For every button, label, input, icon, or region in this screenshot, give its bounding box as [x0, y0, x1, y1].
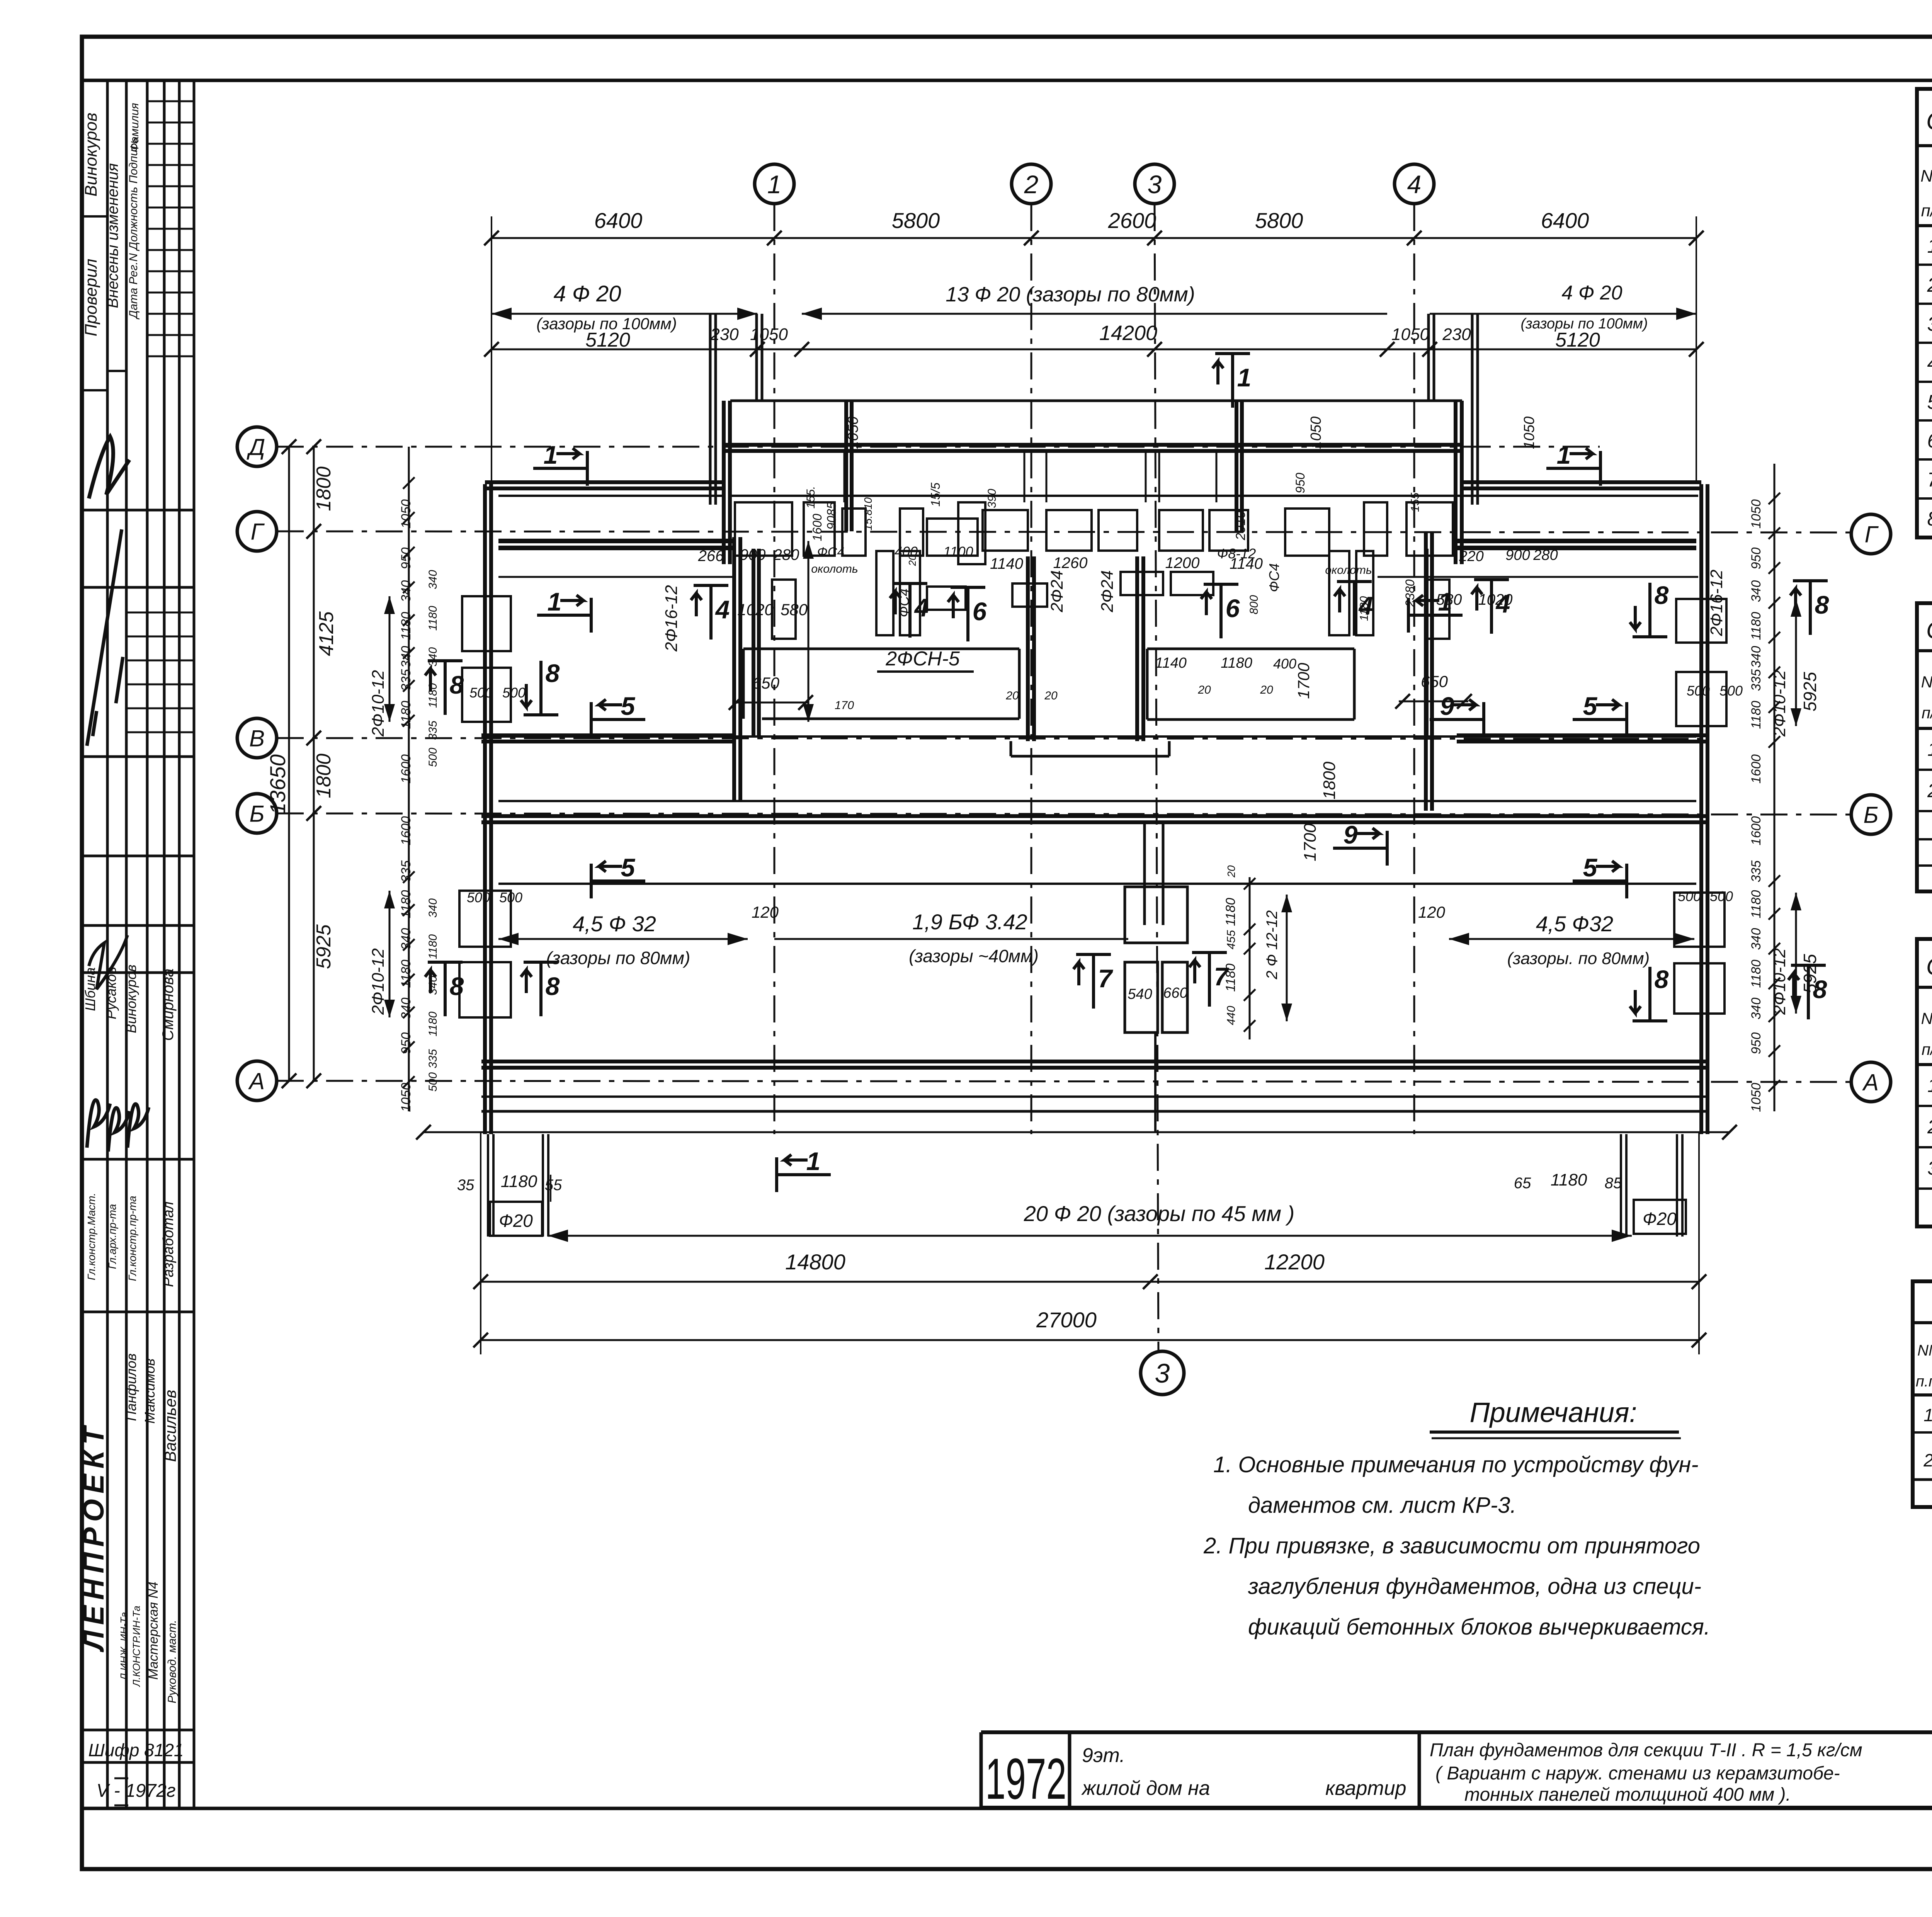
axis line A [277, 1081, 1851, 1082]
svg-text:35: 35 [457, 1177, 474, 1194]
svg-text:9085: 9085 [825, 502, 838, 529]
svg-text:4: 4 [1927, 352, 1932, 374]
svg-text:2ФСН-5: 2ФСН-5 [885, 648, 960, 670]
svg-text:1700: 1700 [1294, 663, 1313, 699]
svg-text:500: 500 [1687, 683, 1710, 699]
svg-text:1180: 1180 [427, 683, 439, 708]
section mark 4 right [1490, 580, 1493, 634]
notch below V [1010, 741, 1012, 756]
2F16-12 dim line [808, 541, 810, 722]
top dimension line spans 6400/5800/2600/5800/6400 [492, 237, 1696, 239]
svg-text:540: 540 [1128, 986, 1152, 1002]
mid dim 4,5F32 right [1449, 938, 1694, 940]
svg-text:1. Основные примечания по у: 1. Основные примечания по устройству фун… [1213, 1452, 1699, 1477]
svg-text:1200: 1200 [1165, 555, 1200, 572]
axis circle G right [1851, 514, 1891, 554]
svg-text:4125: 4125 [315, 611, 338, 656]
svg-text:2380: 2380 [1403, 579, 1417, 607]
svg-text:2Ф16-12: 2Ф16-12 [662, 585, 681, 652]
svg-text:1600: 1600 [810, 514, 824, 541]
correction slash [87, 529, 123, 746]
axis line G [277, 531, 1851, 532]
svg-text:660: 660 [1163, 985, 1187, 1001]
wall interior x1900 [732, 537, 736, 801]
svg-text:фикаций бетонных блоков выч: фикаций бетонных блоков вычеркивается. [1248, 1614, 1710, 1640]
svg-text:тонных панелей толщиной 400: тонных панелей толщиной 400 мм ). [1464, 1784, 1791, 1805]
svg-text:2Ф24: 2Ф24 [1098, 570, 1117, 612]
wall stub top left2 [755, 314, 758, 402]
svg-text:Д: Д [247, 434, 265, 460]
svg-text:5925: 5925 [313, 924, 335, 969]
wall interior x3690 [1424, 531, 1428, 811]
svg-text:А: А [248, 1068, 265, 1094]
svg-text:6: 6 [1927, 430, 1932, 452]
svg-text:квартир: квартир [1325, 1777, 1406, 1800]
svg-text:Разработал: Разработал [160, 1201, 177, 1287]
wing partition [1145, 451, 1147, 502]
svg-text:1180: 1180 [1749, 890, 1764, 918]
axis circle B right [1851, 795, 1891, 834]
svg-text:1: 1 [1237, 363, 1252, 392]
svg-text:120: 120 [1418, 903, 1446, 921]
centre pit element lower [1125, 962, 1158, 1032]
svg-text:Русаков: Русаков [103, 967, 119, 1019]
svg-text:ЛЕНПРОЕКТ: ЛЕНПРОЕКТ [77, 1421, 110, 1652]
svg-text:ФС4: ФС4 [1266, 563, 1282, 592]
svg-text:Руковод. маст.: Руковод. маст. [166, 1620, 179, 1703]
svg-text:2Ф10-12: 2Ф10-12 [369, 670, 388, 737]
axis circle A right [1851, 1062, 1891, 1102]
svg-text:3: 3 [1148, 170, 1162, 199]
axis line 4 [1413, 204, 1415, 1134]
svg-text:335: 335 [399, 861, 413, 883]
svg-text:2: 2 [1923, 1450, 1932, 1470]
table: metal specification [1913, 1281, 1932, 1507]
axis circle V [237, 718, 277, 758]
wall top of left wing [485, 480, 724, 484]
bottom dim 14800/12200 [481, 1281, 1699, 1283]
svg-text:340: 340 [427, 647, 439, 667]
wall stub bottom right [1620, 1134, 1622, 1237]
top dimension 13F20 center [802, 313, 1387, 315]
svg-text:1600: 1600 [1749, 754, 1764, 784]
outer foundation edge centre wing [730, 400, 1462, 402]
svg-text:20: 20 [1197, 684, 1211, 696]
svg-text:5: 5 [621, 692, 636, 720]
top dimension 4F20 right [1430, 313, 1696, 315]
svg-text:340: 340 [427, 898, 439, 918]
inner wall line centre wing [730, 495, 1462, 497]
svg-text:8: 8 [546, 659, 560, 687]
svg-text:8: 8 [1815, 590, 1829, 619]
svg-text:Л.ИНЖ. ИН-Та: Л.ИНЖ. ИН-Та [118, 1612, 130, 1681]
section mark 1 right [1408, 614, 1463, 617]
svg-text:1: 1 [1927, 235, 1932, 257]
svg-text:Проверил: Проверил [82, 259, 100, 336]
svg-text:500: 500 [1678, 888, 1701, 904]
svg-text:7: 7 [1927, 469, 1932, 491]
svg-text:2: 2 [1927, 274, 1932, 296]
svg-text:27000: 27000 [1036, 1308, 1097, 1332]
svg-text:950: 950 [1749, 1032, 1764, 1055]
svg-text:1180: 1180 [1223, 898, 1238, 926]
bottom band [82, 1807, 1932, 1810]
svg-text:6: 6 [973, 597, 987, 626]
svg-text:ФС4: ФС4 [817, 545, 845, 560]
svg-text:6400: 6400 [594, 208, 643, 233]
wall interior x3200 [1235, 402, 1238, 531]
section mark 5 left [591, 718, 645, 721]
svg-text:1180: 1180 [427, 934, 439, 959]
svg-text:1700: 1700 [1301, 823, 1320, 861]
inner line left wing [498, 495, 724, 497]
svg-text:2. При привязке, в зависимо: 2. При привязке, в зависимости от принят… [1203, 1533, 1700, 1558]
wall heavy band right below G [1453, 539, 1696, 543]
mid dim 19BF3.42 center [774, 938, 1128, 940]
bottom dim 27000 [481, 1339, 1699, 1341]
svg-text:8: 8 [450, 972, 464, 1000]
left dim chain 13650 [288, 447, 290, 1081]
top dimension 4F20 left [492, 313, 757, 315]
bottom F20 boxes [490, 1202, 542, 1236]
svg-text:650: 650 [1421, 672, 1448, 691]
svg-text:1600: 1600 [399, 754, 413, 784]
svg-text:7: 7 [1214, 962, 1230, 991]
svg-text:1140: 1140 [1155, 655, 1187, 671]
svg-text:Максимов: Максимов [142, 1359, 158, 1424]
section mark 1 bottom [777, 1173, 831, 1176]
svg-text:1180: 1180 [1749, 612, 1764, 640]
svg-text:155.: 155. [804, 486, 817, 509]
wall left outer [483, 484, 487, 1134]
2F12-12 dim arrow [1286, 895, 1288, 1021]
svg-text:4 Ф 20: 4 Ф 20 [1562, 282, 1622, 304]
bottom foundation edge line [423, 1131, 1730, 1133]
axis circle B left [237, 794, 277, 833]
chain x3234 [1249, 877, 1251, 1039]
svg-text:950: 950 [399, 548, 413, 570]
svg-text:5925: 5925 [1800, 672, 1820, 711]
svg-text:1: 1 [1927, 738, 1932, 760]
outer line below A [481, 1110, 1708, 1113]
svg-text:1: 1 [544, 441, 558, 469]
svg-text:п/п: п/п [1922, 1040, 1932, 1058]
line below A [481, 1095, 1708, 1098]
section mark 9 upper [1430, 718, 1484, 721]
svg-text:4,5 Ф32: 4,5 Ф32 [1536, 912, 1613, 936]
svg-text:440: 440 [1225, 1006, 1238, 1025]
wall on axis B [481, 814, 1708, 818]
foundation pads right edge [1676, 599, 1726, 643]
svg-text:500: 500 [469, 685, 493, 701]
axis circle 2 [1012, 164, 1051, 204]
svg-text:900: 900 [1505, 547, 1530, 563]
svg-text:1050: 1050 [1521, 417, 1537, 449]
wall interior x3692 [1425, 549, 1429, 737]
svg-text:280: 280 [1533, 547, 1558, 563]
signature [128, 1104, 149, 1148]
svg-text:1180: 1180 [1221, 655, 1252, 671]
svg-text:2910: 2910 [1233, 511, 1248, 541]
svg-text:500: 500 [499, 890, 522, 905]
svg-text:1180: 1180 [1551, 1170, 1587, 1189]
svg-text:390: 390 [986, 489, 998, 508]
svg-text:1180: 1180 [399, 959, 413, 988]
svg-text:155: 155 [1409, 493, 1422, 512]
svg-text:20 Ф 20 (зазоры по 45 мм ): 20 Ф 20 (зазоры по 45 мм ) [1024, 1201, 1295, 1226]
mid dim 4,5F32 left [498, 938, 748, 940]
svg-text:340: 340 [427, 976, 439, 995]
wing partition [844, 451, 845, 502]
svg-text:1050: 1050 [1749, 1083, 1764, 1112]
svg-text:1180: 1180 [1749, 959, 1764, 988]
inner wall line below G right [1378, 576, 1698, 578]
svg-text:85: 85 [1605, 1175, 1622, 1192]
svg-text:280: 280 [773, 546, 799, 563]
wing partition [1024, 451, 1026, 502]
svg-text:13 Ф 20 (зазоры по 80мм): 13 Ф 20 (зазоры по 80мм) [946, 283, 1195, 306]
svg-text:1800: 1800 [313, 754, 335, 798]
svg-text:Мастерская N4: Мастерская N4 [146, 1582, 161, 1680]
svg-text:5: 5 [1583, 853, 1598, 882]
svg-text:2Ф10-12: 2Ф10-12 [1770, 670, 1789, 737]
svg-text:340: 340 [1749, 998, 1764, 1020]
svg-text:500: 500 [1710, 888, 1733, 904]
svg-text:13650: 13650 [265, 754, 290, 815]
svg-text:6: 6 [1226, 594, 1240, 623]
svg-text:580: 580 [781, 600, 808, 619]
svg-text:14800: 14800 [785, 1250, 845, 1274]
svg-text:5120: 5120 [585, 329, 630, 351]
svg-text:1600: 1600 [1749, 816, 1764, 845]
axis line 2 [1031, 204, 1032, 1134]
svg-text:V - 1972г: V - 1972г [96, 1781, 175, 1801]
svg-text:1180: 1180 [399, 612, 413, 640]
table: concrete products h=1.95 [1917, 939, 1932, 1226]
svg-text:4: 4 [914, 593, 929, 622]
svg-text:8: 8 [1655, 581, 1669, 609]
correction slash 2 [89, 935, 128, 989]
wall corridor room bottom [498, 800, 1696, 802]
axis circle 1 [755, 164, 794, 204]
table: specification of reinforced concrete products [1917, 89, 1932, 538]
foundation pads left edge [462, 596, 511, 651]
axis circle 3 bottom [1141, 1351, 1184, 1395]
section mark 8 left 1 [444, 661, 447, 715]
svg-text:заглубления фундаментов, одн: заглубления фундаментов, одна из специ- [1248, 1574, 1701, 1599]
svg-text:2Ф24: 2Ф24 [1048, 570, 1066, 612]
svg-text:ФС4: ФС4 [896, 589, 912, 617]
svg-text:2: 2 [1927, 1116, 1932, 1138]
wall corridor right x2943 [1135, 556, 1139, 741]
section mark 6 right [1219, 584, 1223, 638]
svg-text:580: 580 [1436, 591, 1462, 608]
svg-text:1180: 1180 [1749, 701, 1764, 729]
svg-text:1050: 1050 [1749, 499, 1764, 529]
svg-text:500: 500 [427, 1072, 439, 1092]
wall stub top left [709, 314, 712, 505]
svg-text:340: 340 [399, 646, 413, 668]
svg-text:Г: Г [251, 519, 265, 545]
svg-text:3: 3 [1155, 1358, 1170, 1388]
svg-text:1800: 1800 [313, 466, 335, 511]
svg-text:340: 340 [399, 580, 413, 602]
svg-text:1800: 1800 [1320, 762, 1339, 799]
axis circle D [237, 427, 277, 466]
svg-text:1050: 1050 [1308, 417, 1324, 449]
wing partition [1046, 451, 1048, 502]
svg-text:4: 4 [715, 595, 730, 624]
svg-text:500: 500 [1719, 683, 1743, 699]
bottom dim 20F20 [548, 1235, 1632, 1237]
svg-text:335: 335 [1749, 861, 1764, 883]
svg-text:околоть: околоть [1325, 564, 1372, 577]
svg-text:4 Ф 20: 4 Ф 20 [553, 281, 621, 306]
section mark 8 left 3 [444, 962, 447, 1016]
svg-text:5: 5 [621, 853, 636, 882]
wall on axis V right [1457, 733, 1708, 737]
svg-text:5800: 5800 [1255, 208, 1303, 233]
wall on axis V left [481, 733, 734, 737]
section mark 8 right 4 [1807, 965, 1810, 1019]
svg-text:1,9 БФ 3.42: 1,9 БФ 3.42 [912, 910, 1027, 934]
svg-text:Ф8-12: Ф8-12 [1217, 546, 1256, 561]
svg-text:340: 340 [427, 570, 439, 589]
svg-text:1180: 1180 [501, 1172, 537, 1191]
svg-text:4,5 Ф 32: 4,5 Ф 32 [573, 912, 656, 936]
section mark 8 right 2 [1809, 581, 1812, 635]
wall stub top right2 [1471, 314, 1474, 505]
section mark 1 right wing [1546, 467, 1600, 470]
svg-text:Гл.констр.пр-та: Гл.констр.пр-та [126, 1196, 138, 1281]
svg-text:220: 220 [1459, 548, 1483, 565]
svg-text:2Ф10-12: 2Ф10-12 [369, 948, 388, 1015]
title block [981, 1730, 1932, 1734]
svg-text:15/5: 15/5 [929, 483, 942, 507]
svg-text:1260: 1260 [1053, 555, 1088, 572]
svg-text:Винокуров: Винокуров [82, 112, 100, 196]
svg-text:Дата Рег.N Должность Подпись: Дата Рег.N Должность Подпись [127, 138, 140, 320]
wall top of centre wing on axis D [724, 443, 1462, 447]
svg-text:(зазоры. по 80мм): (зазоры. по 80мм) [1507, 949, 1650, 968]
svg-text:1180: 1180 [399, 890, 413, 918]
section mark 8 left 2 [539, 661, 543, 715]
svg-text:1050: 1050 [845, 417, 861, 449]
svg-text:1: 1 [767, 170, 782, 199]
svg-text:120: 120 [752, 903, 779, 921]
section mark 4 mid-right [1353, 582, 1356, 636]
wall right outer [1699, 484, 1703, 1134]
wall centre wing right [1454, 401, 1458, 564]
svg-text:План фундаментов для секции: План фундаментов для секции Т-II . R = 1… [1430, 1740, 1862, 1761]
svg-text:даментов см. лист КР-3.: даментов см. лист КР-3. [1248, 1493, 1517, 1518]
svg-text:2600: 2600 [1108, 208, 1156, 233]
svg-text:1: 1 [806, 1147, 821, 1175]
svg-text:В: В [249, 726, 265, 752]
svg-text:1050: 1050 [399, 1083, 413, 1112]
svg-text:950: 950 [399, 1032, 413, 1055]
svg-text:1020: 1020 [737, 600, 774, 619]
svg-text:9: 9 [1344, 820, 1358, 849]
axis line B [277, 813, 1851, 815]
svg-text:500: 500 [502, 685, 526, 701]
svg-text:(зазоры ~40мм): (зазоры ~40мм) [909, 946, 1039, 966]
svg-text:Гл.констр.Маст.: Гл.констр.Маст. [85, 1193, 97, 1280]
svg-text:Ф20: Ф20 [1643, 1209, 1677, 1229]
section mark 5 left lower [591, 879, 645, 883]
axis circle A left [237, 1061, 277, 1101]
svg-text:Спецификация сборных железоб: Спецификация сборных железобетонных изде… [1926, 107, 1932, 135]
axis line 3 [1155, 204, 1158, 1351]
wall interior x1950 [752, 549, 755, 737]
wall top of right wing [1462, 480, 1701, 484]
wing partition [1158, 451, 1160, 502]
svg-text:Гл.арх.пр-та: Гл.арх.пр-та [106, 1204, 118, 1269]
svg-text:Л.КОНСТР.ИН-Та: Л.КОНСТР.ИН-Та [131, 1606, 142, 1687]
svg-text:3: 3 [1927, 313, 1932, 335]
svg-text:950: 950 [1749, 548, 1764, 570]
right inner dim chain line [1774, 464, 1776, 1111]
wall stub bottom left2 [542, 1134, 544, 1237]
axis line 1 [774, 204, 776, 1134]
svg-text:8: 8 [546, 972, 560, 1000]
wall on axis A [481, 1060, 1708, 1063]
section mark 4 left [709, 585, 713, 640]
svg-text:1100: 1100 [943, 544, 973, 560]
svg-text:Примечания:: Примечания: [1469, 1397, 1637, 1428]
svg-text:Винокуров: Винокуров [123, 964, 139, 1033]
svg-text:Г: Г [1865, 522, 1879, 548]
svg-text:Шифр 8121: Шифр 8121 [88, 1740, 184, 1760]
svg-text:400: 400 [1273, 656, 1296, 672]
svg-text:340: 340 [1749, 646, 1764, 668]
svg-text:1180: 1180 [427, 606, 439, 631]
svg-text:230: 230 [1442, 325, 1471, 344]
svg-text:1: 1 [1923, 1405, 1932, 1425]
svg-text:8: 8 [450, 670, 464, 699]
svg-text:170: 170 [835, 699, 854, 712]
top margin band line [82, 79, 1932, 82]
svg-text:2 Ф 12-12: 2 Ф 12-12 [1264, 910, 1281, 980]
svg-text:п.п.: п.п. [1916, 1373, 1932, 1390]
svg-text:900: 900 [740, 546, 766, 563]
svg-text:Внесены изменения: Внесены изменения [104, 163, 121, 308]
svg-text:Ф20: Ф20 [499, 1211, 533, 1231]
svg-text:околоть: околоть [811, 563, 858, 575]
svg-text:2Ф16-12: 2Ф16-12 [1707, 570, 1726, 636]
svg-text:340: 340 [1749, 928, 1764, 950]
section mark 9 lower [1333, 847, 1387, 850]
centre pit element upper [1125, 887, 1187, 943]
svg-text:650: 650 [752, 674, 780, 692]
svg-text:335: 335 [1749, 669, 1764, 691]
svg-text:8: 8 [1927, 508, 1932, 530]
svg-text:5120: 5120 [1555, 329, 1600, 351]
svg-text:NN: NN [1921, 1009, 1932, 1027]
svg-text:п/п: п/п [1921, 201, 1932, 220]
svg-text:Васильев: Васильев [161, 1390, 179, 1462]
svg-text:1140: 1140 [990, 555, 1023, 572]
svg-text:1020: 1020 [1478, 591, 1513, 608]
svg-text:1600: 1600 [399, 816, 413, 845]
section mark 7 left [1092, 954, 1095, 1009]
axis line V [277, 738, 1708, 739]
svg-text:500: 500 [467, 890, 490, 905]
svg-text:335: 335 [427, 721, 439, 740]
wall channel into pit [1143, 822, 1146, 925]
svg-text:9эт.: 9эт. [1082, 1744, 1125, 1767]
svg-text:340: 340 [399, 998, 413, 1020]
